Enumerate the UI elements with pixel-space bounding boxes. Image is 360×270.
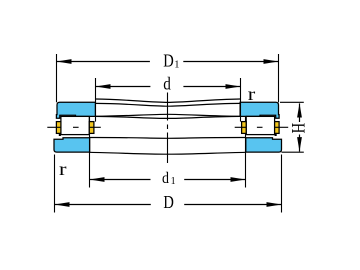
svg-text:1: 1: [171, 176, 176, 187]
top washer (shaft washer) left section: [56, 102, 95, 118]
cage bar left-inner: [89, 122, 94, 134]
svg-text:d: d: [163, 73, 171, 93]
arrow H down: [297, 137, 302, 152]
arrow D left: [55, 202, 70, 207]
extension line D right: [281, 155, 283, 213]
housing washer bottom edge middle arc: [90, 152, 246, 154]
extension line D left: [54, 155, 56, 213]
bearing axis centerline: [167, 93, 169, 164]
bottom washer (housing washer) left section: [54, 138, 90, 152]
dimension line D: [55, 204, 282, 206]
svg-text:H: H: [288, 123, 309, 134]
extension line d1 right / housing washer bore edge: [245, 116, 247, 187]
svg-text:1: 1: [174, 59, 179, 70]
roller right section: [246, 116, 274, 134]
extension line D1 right: [278, 54, 280, 102]
roller centerline right: [235, 126, 289, 128]
arrow D1 left: [57, 59, 72, 64]
dimension line d1: [90, 179, 246, 181]
extension line D1 left: [56, 54, 58, 102]
cage bar right-outer: [275, 122, 280, 134]
dimension line H: [299, 103, 301, 151]
arrow d left: [96, 84, 111, 89]
arrow d1 left: [90, 177, 105, 182]
extension line d right / bore edge: [240, 78, 242, 122]
svg-text:r: r: [248, 84, 256, 104]
arrow d right: [226, 84, 241, 89]
dimension line d: [96, 86, 241, 88]
roller centerline left: [47, 126, 101, 128]
H extension line top: [280, 101, 304, 103]
bottom washer (housing washer) right section: [246, 138, 282, 152]
extension line d left / bore edge: [95, 78, 97, 122]
svg-text:D: D: [163, 192, 174, 212]
svg-text:r: r: [59, 159, 67, 179]
sphere contour arc B (lower): [95, 103, 240, 106]
arrow D1 right: [264, 59, 279, 64]
arrow H up: [297, 103, 302, 117]
top washer (shaft washer) right section: [240, 102, 279, 118]
svg-text:D: D: [163, 51, 174, 71]
housing washer top edge middle arc: [90, 136, 246, 139]
dimension line D1: [57, 61, 279, 63]
svg-text:d: d: [162, 170, 169, 187]
cage bar right-inner: [242, 122, 247, 134]
H extension line bottom: [282, 151, 304, 153]
roller left section: [61, 116, 89, 134]
extension line d1 left / housing washer bore edge: [89, 116, 91, 187]
raceway lens upper arc: [95, 114, 240, 116]
raceway lens lower arc: [95, 116, 240, 118]
arrow D right: [267, 202, 282, 207]
cage stub right: [275, 133, 277, 136]
cage stub left: [59, 133, 61, 136]
arrow d1 right: [231, 177, 246, 182]
sphere contour arc A (upper): [95, 99, 240, 102]
cage bar left-outer: [56, 122, 61, 134]
